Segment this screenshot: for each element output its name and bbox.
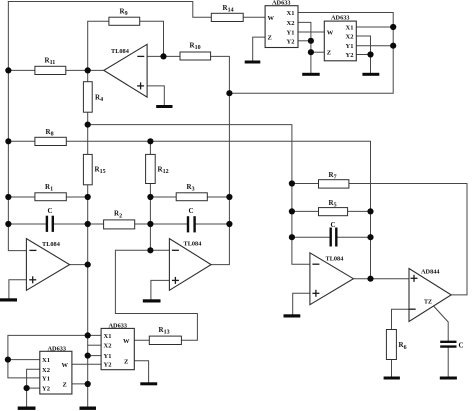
svg-text:W: W (123, 338, 130, 345)
svg-text:Y1: Y1 (287, 30, 295, 37)
svg-text:AD633: AD633 (109, 323, 128, 330)
svg-text:Y2: Y2 (346, 52, 354, 59)
svg-text:Y1: Y1 (104, 353, 112, 360)
svg-text:X2: X2 (346, 34, 354, 41)
svg-text:Z: Z (124, 358, 128, 365)
svg-text:TL084: TL084 (326, 256, 345, 263)
svg-text:AD633: AD633 (48, 346, 67, 353)
svg-text:Y2: Y2 (287, 38, 295, 45)
svg-text:X2: X2 (104, 343, 112, 350)
svg-text:W: W (268, 15, 275, 22)
svg-text:C: C (331, 221, 336, 229)
svg-text:C: C (48, 207, 53, 215)
svg-text:X2: X2 (287, 20, 295, 27)
svg-text:Y2: Y2 (42, 386, 50, 393)
svg-text:W: W (327, 29, 334, 36)
svg-text:Y1: Y1 (42, 375, 50, 382)
svg-text:AD844: AD844 (421, 269, 440, 276)
svg-text:C: C (459, 342, 464, 350)
svg-text:X1: X1 (42, 357, 50, 364)
svg-text:Z: Z (268, 35, 272, 42)
svg-text:W: W (62, 362, 69, 369)
svg-text:X1: X1 (287, 10, 295, 17)
svg-text:TL084: TL084 (111, 48, 130, 55)
svg-text:Z: Z (327, 50, 331, 57)
svg-text:AD633: AD633 (272, 0, 291, 7)
svg-text:TL084: TL084 (42, 241, 61, 248)
svg-text:Y2: Y2 (104, 362, 112, 369)
svg-text:C: C (189, 207, 194, 215)
svg-text:TL084: TL084 (184, 241, 203, 248)
svg-text:Y1: Y1 (346, 43, 354, 50)
svg-text:AD633: AD633 (331, 15, 350, 22)
svg-text:Z: Z (63, 381, 67, 388)
svg-text:TZ: TZ (424, 300, 432, 306)
svg-text:X2: X2 (42, 367, 50, 374)
svg-text:X1: X1 (104, 333, 112, 340)
svg-text:X1: X1 (346, 25, 354, 32)
